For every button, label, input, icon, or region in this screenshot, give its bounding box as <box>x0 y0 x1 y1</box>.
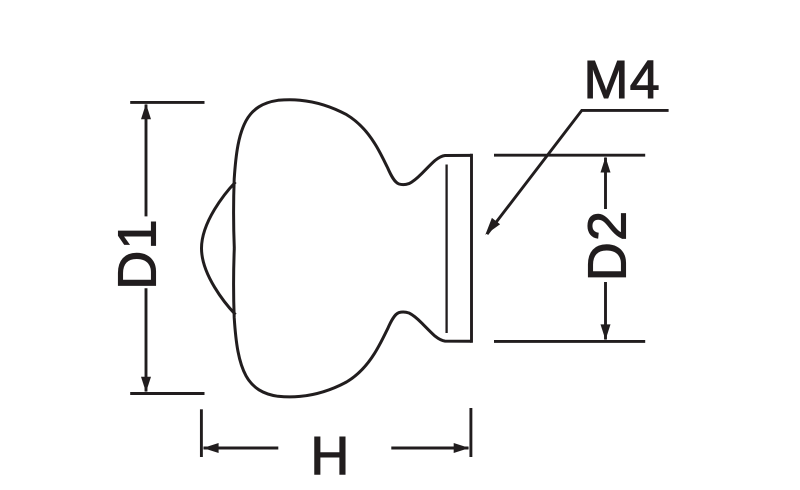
H dimension line (left segment) <box>204 447 279 450</box>
D2 dimension line (upper segment) <box>604 158 607 210</box>
H left extension line <box>200 409 203 457</box>
D2 top extension line <box>494 154 645 157</box>
D1 arrow down <box>141 377 151 393</box>
stem right edge <box>470 154 473 343</box>
H dimension line (right segment) <box>391 447 468 450</box>
M4 leader arrowhead <box>485 218 500 235</box>
D1 top tick line <box>130 101 204 104</box>
M4 leader line <box>487 110 669 234</box>
dome arc (front face silhouette) <box>202 182 236 315</box>
stem inner line <box>445 165 447 334</box>
D2 arrow down <box>601 324 611 340</box>
D1 dimension line (upper segment) <box>145 105 148 217</box>
svg-text:D1: D1 <box>107 218 167 289</box>
D1 dimension line (lower segment) <box>145 288 148 391</box>
svg-text:H: H <box>310 426 349 486</box>
D2 bottom extension line <box>494 340 645 343</box>
svg-text:M4: M4 <box>584 50 661 110</box>
D2 dimension line (lower segment) <box>604 282 607 340</box>
D1 bottom tick line <box>130 392 204 395</box>
knob head outline (bottom half, mirror) <box>234 248 472 397</box>
H arrow left <box>203 443 219 453</box>
D2 arrow up <box>601 157 611 173</box>
H right extension line <box>469 408 472 457</box>
knob head outline (top half) <box>234 100 472 249</box>
H arrow right <box>454 443 470 453</box>
D1 arrow up <box>141 104 151 120</box>
svg-text:D2: D2 <box>577 210 637 281</box>
